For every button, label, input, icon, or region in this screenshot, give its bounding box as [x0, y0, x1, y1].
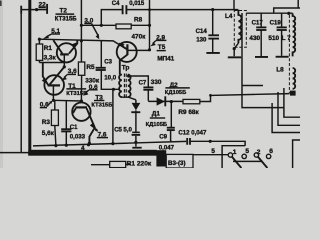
page left edge shading — [0, 0, 3, 168]
R5 bottom lead to T3 base — [80, 75, 82, 103]
svg-text:КТ315Б: КТ315Б — [66, 91, 87, 97]
L8 end blob — [290, 91, 296, 96]
resistor R3 — [51, 110, 58, 126]
svg-text:R1: R1 — [44, 45, 53, 52]
svg-text:330: 330 — [151, 79, 162, 86]
node dot T5 emitter — [148, 48, 151, 51]
svg-text:L8: L8 — [276, 66, 284, 73]
svg-text:470к: 470к — [132, 33, 147, 40]
windings bottom joint — [121, 97, 136, 100]
right unit frame top edge — [242, 85, 263, 87]
transistor T1 — [44, 75, 64, 95]
wire vertical from top edge to R8 rail — [80, 0, 82, 62]
ground rail wire — [33, 141, 186, 146]
coil L4 shield dashed box — [234, 11, 246, 48]
nested corner 4 — [293, 140, 300, 168]
switch bar — [233, 160, 262, 162]
node dot T2 base / T1 collector — [63, 65, 66, 68]
svg-text:5,0: 5,0 — [123, 127, 132, 134]
tap dropper wire to ground rail — [112, 89, 114, 143]
svg-text:510: 510 — [268, 35, 279, 42]
svg-text:С7: С7 — [139, 81, 147, 87]
svg-text:R1 220к: R1 220к — [127, 160, 152, 167]
svg-text:С14: С14 — [196, 28, 208, 35]
node dot C4 right — [148, 24, 151, 27]
svg-text:R5: R5 — [86, 64, 95, 71]
shield border thick left line — [28, 0, 31, 156]
capacitor C14 — [212, 10, 214, 35]
svg-text:430: 430 — [249, 35, 260, 42]
figure frame thin line left — [0, 14, 29, 153]
svg-text:КТ315Б: КТ315Б — [91, 102, 112, 108]
svg-text:Тр: Тр — [122, 64, 130, 71]
L4 ground — [228, 56, 241, 58]
secondary top dot and wire to C7 — [127, 74, 130, 77]
resistor R9 — [183, 99, 200, 103]
svg-text:R3: R3 — [42, 119, 51, 126]
svg-text:С9: С9 — [159, 134, 167, 141]
node dot 5 — [209, 140, 212, 143]
base bias wire horizontal — [39, 39, 127, 49]
node dot D1 out — [170, 100, 173, 103]
capacitor C1 — [65, 101, 67, 145]
coil L8 — [293, 68, 296, 89]
capacitor C9 — [170, 102, 172, 128]
ground bar under C5 — [135, 142, 137, 146]
capacitor C12 — [187, 138, 190, 145]
page corner tick top-left — [0, 1, 2, 7]
C17 ground — [255, 56, 268, 58]
top filter wire — [246, 12, 292, 14]
black filled block at border end — [156, 150, 166, 166]
node dot R1 top — [38, 38, 41, 41]
nested corner 2 — [278, 92, 300, 125]
rail node dots — [54, 144, 57, 147]
connector pins box — [193, 154, 229, 156]
T2 base lead down — [63, 55, 65, 67]
T1 base lead down — [52, 86, 54, 100]
node dot T1 base — [52, 99, 55, 102]
svg-text:С1: С1 — [70, 125, 78, 131]
L7 shield dashed line — [288, 15, 290, 93]
nested corner 3 — [272, 103, 300, 133]
transistor T2 — [57, 43, 76, 62]
svg-text:L4: L4 — [225, 13, 233, 20]
transformer primary winding — [119, 75, 122, 97]
svg-text:1: 1 — [233, 149, 237, 156]
node dot — [80, 39, 83, 42]
svg-text:5,6к: 5,6к — [42, 130, 55, 137]
svg-text:C3: C3 — [104, 60, 112, 66]
svg-text:R8: R8 — [134, 17, 143, 24]
antenna input wire through shield — [21, 9, 47, 11]
svg-text:0,047: 0,047 — [191, 129, 207, 136]
svg-text:КД105Б: КД105Б — [165, 90, 187, 96]
svg-text:10,0: 10,0 — [104, 74, 116, 81]
B3-(3) block box — [166, 154, 193, 168]
wire from top to T5 node — [149, 0, 151, 50]
capacitor C3 — [100, 41, 102, 67]
svg-text:3,3к: 3,3к — [44, 54, 57, 61]
R9 wire to right block — [200, 94, 290, 102]
nested corner 1 — [284, 88, 300, 117]
svg-text:КТ315Б: КТ315Б — [55, 16, 77, 22]
node dot — [80, 24, 83, 27]
resistor R8 — [116, 24, 131, 29]
right unit frame vertical — [242, 13, 284, 108]
svg-text:С19: С19 — [270, 20, 282, 27]
svg-text:R9 68к: R9 68к — [178, 109, 199, 116]
resistor R5 — [78, 62, 84, 75]
resistor R1 — [36, 44, 43, 60]
top coupling wire right — [150, 9, 239, 11]
node dot C4 left — [100, 24, 103, 27]
capacitor C4 plates — [123, 5, 127, 14]
svg-text:В3-(3): В3-(3) — [168, 160, 186, 167]
coil L4 — [238, 10, 241, 44]
base coupling wire — [53, 99, 81, 102]
diode D1 wire — [148, 100, 183, 103]
transistor T5 — [117, 42, 137, 62]
C14 ground — [212, 39, 214, 52]
C3 bottom wire to transformer tap — [101, 70, 119, 89]
node dot on input wire — [35, 8, 38, 11]
svg-text:4: 4 — [81, 145, 85, 152]
supply rail wire with R8 — [81, 24, 149, 26]
input terminal bar left — [20, 6, 22, 14]
svg-text:С5: С5 — [114, 128, 122, 134]
transformer core — [124, 74, 126, 99]
shield border thick bottom bar — [28, 150, 156, 156]
svg-text:МП41: МП41 — [157, 55, 174, 62]
capacitor C7 — [143, 86, 153, 88]
svg-text:КД105Б: КД105Б — [146, 122, 168, 128]
capacitor C4 loop wires — [101, 10, 149, 26]
svg-text:0,033: 0,033 — [70, 133, 86, 140]
transformer secondary winding — [128, 75, 131, 97]
transistor T3 — [72, 103, 90, 121]
right top frame — [274, 8, 300, 13]
coil L7 — [293, 13, 296, 56]
svg-text:0,047: 0,047 — [159, 144, 175, 151]
svg-text:C4: C4 — [112, 1, 120, 7]
resistor R1 220k bottom — [91, 164, 110, 166]
tap node dot — [112, 88, 115, 91]
svg-text:0,015: 0,015 — [129, 1, 145, 7]
svg-text:130: 130 — [196, 36, 207, 43]
C19 ground — [276, 56, 289, 58]
R1 bottom wire to base line — [39, 62, 64, 64]
svg-text:Д1: Д1 — [152, 111, 161, 118]
diode D2 — [135, 100, 137, 103]
svg-text:С12: С12 — [178, 129, 190, 136]
top stub — [233, 0, 235, 10]
diode D1 — [157, 97, 165, 105]
input terminal bar right — [46, 4, 48, 14]
